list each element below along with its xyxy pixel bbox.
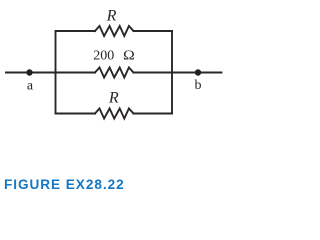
svg-text:R: R [108, 90, 119, 107]
wire: bottom rail right segment [134, 113, 173, 115]
svg-text:Ω: Ω [123, 49, 135, 64]
wire: right vertical bus [171, 31, 173, 114]
svg-text:b: b [195, 78, 202, 93]
resistor R (top) [95, 26, 134, 36]
node b (junction dot) [195, 69, 201, 75]
caption FIGURE EX28.22 [4, 177, 125, 192]
wire: bottom rail left segment [56, 113, 96, 115]
wire: top rail left segment [56, 30, 96, 32]
wire: top rail right segment [134, 30, 173, 32]
svg-text:a: a [27, 79, 34, 94]
node a (junction dot) [26, 69, 32, 75]
svg-text:R: R [106, 8, 117, 25]
wire: middle branch left segment [56, 72, 96, 74]
resistor 200 ohm (middle) [95, 68, 134, 78]
svg-text:200: 200 [93, 49, 114, 64]
wire: middle branch right segment [134, 72, 173, 74]
wire: left vertical bus [55, 31, 57, 114]
wire: left lead from edge through node a to left bus [6, 72, 56, 74]
resistor R (bottom) [95, 109, 134, 119]
wire: right lead from right bus through node b to edge [172, 72, 222, 74]
